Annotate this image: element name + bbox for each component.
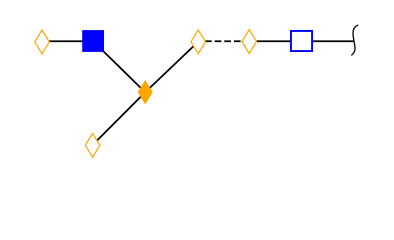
wire: dashed linkage D3 to D4 (205, 40, 241, 42)
monosaccharide S2: open blue square (291, 31, 312, 51)
monosaccharide D4: open orange diamond (242, 30, 257, 54)
monosaccharide DC: filled orange diamond (138, 81, 152, 104)
wire: diagonal linkage DC to D2 (93, 92, 145, 145)
monosaccharide D3: open orange diamond (191, 30, 206, 54)
wire: horizontal linkage S2 to reducing-end squiggle (313, 40, 353, 42)
monosaccharide D1: open orange diamond (35, 30, 50, 54)
wire: horizontal linkage D1 to S1 (42, 40, 93, 42)
reducing-end squiggle (352, 25, 358, 55)
monosaccharide S1: filled blue square (82, 30, 104, 52)
wire: diagonal linkage S1 to DC (93, 41, 145, 92)
wire: horizontal linkage D4 to S2 (249, 40, 301, 42)
wire: diagonal linkage DC to D3 (145, 42, 198, 92)
monosaccharide D2: open orange diamond (lower branch) (85, 133, 100, 157)
